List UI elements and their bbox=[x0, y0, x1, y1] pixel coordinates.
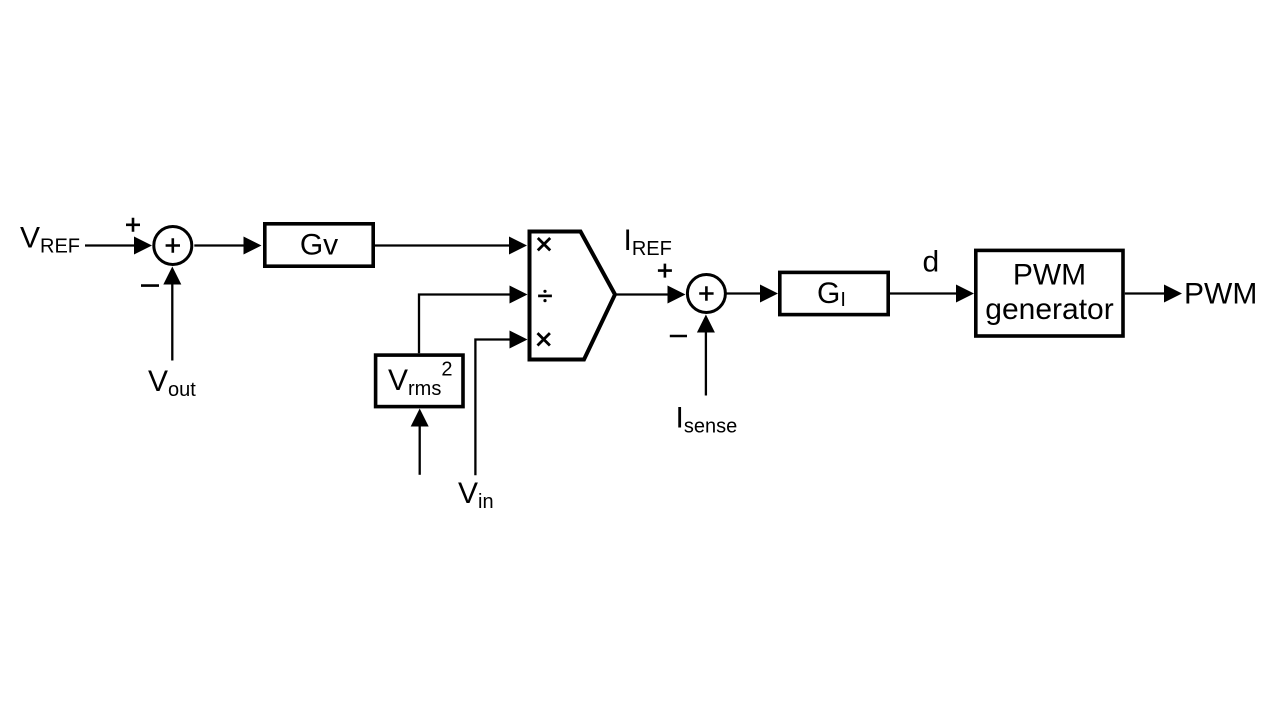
svg-text:d: d bbox=[923, 246, 940, 279]
svg-text:Gv: Gv bbox=[300, 229, 338, 262]
multiplier-divider block bbox=[530, 232, 616, 360]
block Vrms squared bbox=[376, 355, 463, 407]
plus sign at S1 upper input bbox=[126, 218, 140, 232]
svg-text:PWM: PWM bbox=[1013, 258, 1086, 291]
summing junction S1 bbox=[154, 227, 192, 265]
svg-text:generator: generator bbox=[985, 293, 1113, 326]
block Gv bbox=[265, 224, 373, 266]
svg-text:PWM: PWM bbox=[1184, 278, 1257, 311]
wire Vrms2 to multiplier divide input bbox=[419, 286, 528, 354]
wire GI to PWM generator bbox=[888, 285, 974, 303]
block GI bbox=[780, 272, 888, 314]
wire S2 to GI bbox=[726, 285, 778, 303]
wire I_sense to S2 bbox=[697, 315, 715, 396]
wire V_REF to summer S1 bbox=[85, 237, 152, 255]
divide symbol middle input bbox=[538, 290, 552, 303]
minus sign at S1 feedback input bbox=[141, 284, 159, 287]
wire S1 to Gv bbox=[194, 237, 261, 255]
wire V_out to S1 bbox=[163, 267, 181, 361]
summing junction S2 bbox=[687, 275, 725, 313]
wire input into Vrms2 block bbox=[411, 409, 429, 475]
wire multiplier to summer S2 bbox=[615, 286, 686, 304]
plus sign at S2 upper input bbox=[658, 264, 672, 278]
wire PWM generator output bbox=[1125, 285, 1182, 303]
wire Gv to multiplier bbox=[375, 237, 527, 255]
wire V_in to multiplier bottom input bbox=[475, 331, 527, 476]
multiply symbol bottom input bbox=[538, 333, 550, 345]
block PWM generator bbox=[976, 250, 1123, 336]
minus sign at S2 feedback input bbox=[670, 335, 687, 338]
multiply symbol top input bbox=[538, 238, 550, 250]
